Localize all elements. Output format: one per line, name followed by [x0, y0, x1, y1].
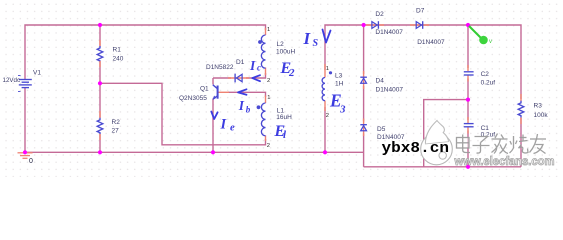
svg-text:D1N4007: D1N4007 — [417, 39, 445, 46]
wire D4 D5 vertical branch — [363, 25, 365, 74]
svg-text:b: b — [246, 105, 251, 115]
annotation E2 — [280, 60, 296, 79]
svg-text:2: 2 — [326, 113, 329, 119]
polarity dot L1 — [257, 105, 261, 109]
junction C2 branch at top rail — [466, 23, 470, 27]
resistor R3 — [518, 101, 524, 118]
wire between D4 and D5 — [363, 86, 365, 122]
resistor R1 — [97, 46, 103, 61]
annotation Ib with arrow — [238, 89, 251, 114]
svg-text:2: 2 — [267, 78, 270, 84]
pin stub R2 top — [99, 111, 101, 118]
svg-text:1H: 1H — [335, 81, 344, 88]
svg-text:R3: R3 — [534, 103, 543, 110]
diode D5 — [360, 125, 367, 131]
pin stub L1 top — [265, 96, 267, 104]
svg-text:100uH: 100uH — [276, 49, 295, 56]
inductor L2 — [261, 35, 265, 68]
svg-text:1: 1 — [267, 27, 270, 33]
svg-text:c: c — [257, 63, 261, 73]
junction V1 minus at ground bus — [23, 150, 27, 154]
pin stub R2 bottom — [99, 134, 101, 141]
inductor L3 — [322, 78, 325, 101]
diode D7 — [416, 21, 423, 29]
junction L3 bottom at ground bus — [323, 150, 327, 154]
annotation Ic with arrow — [249, 58, 261, 81]
junction D4 branch at top rail — [362, 23, 366, 27]
wire L3 bottom to bus — [324, 107, 326, 152]
svg-text:Q2N3055: Q2N3055 — [179, 95, 207, 102]
svg-text:100k: 100k — [534, 112, 549, 119]
capacitor C1 — [464, 124, 474, 127]
svg-text:D1N4007: D1N4007 — [376, 87, 404, 94]
pin stub L3 bottom — [324, 101, 326, 112]
wire Q1 emitter to bus — [212, 99, 214, 153]
wire top-left rail V1+ to L2 pin1 — [25, 25, 266, 80]
diode D2 — [372, 21, 379, 29]
wire R2 bottom to bus — [99, 134, 101, 152]
transistor Q1 — [213, 85, 218, 100]
svg-text:240: 240 — [113, 56, 124, 63]
pin stub D2 through — [366, 24, 384, 26]
wire Q1 collector to D1 row — [212, 78, 214, 85]
wire battery bottom to ground bus — [24, 88, 26, 153]
watermark chinese 电子发烧友 drawn strokes — [457, 134, 547, 154]
svg-text:S: S — [313, 38, 319, 49]
svg-text:0.2uf: 0.2uf — [481, 80, 496, 87]
pin stub Q1 base — [219, 91, 230, 93]
pin stub L3 top — [324, 64, 326, 78]
annotation E1 — [274, 123, 288, 141]
svg-text:I: I — [249, 58, 256, 73]
wire D1 row left segment — [213, 77, 231, 79]
pin stub C1 bottom — [467, 128, 469, 134]
pin stub D7 through — [410, 24, 429, 26]
wire mid tap node to left and down — [424, 100, 468, 167]
svg-text:D2: D2 — [375, 11, 384, 18]
svg-text:V1: V1 — [33, 70, 41, 77]
pin stub R1 top — [99, 40, 101, 47]
diode D1 — [235, 74, 242, 83]
svg-text:C2: C2 — [481, 71, 490, 78]
wire bottom-right bus — [364, 166, 521, 168]
junction C2-C1 mid node tap — [466, 98, 470, 102]
grid dots — [0, 0, 563, 177]
svg-text:R2: R2 — [112, 119, 121, 126]
junction C1 bottom at lower bus — [466, 165, 470, 169]
pin stub L2 bottom — [265, 68, 267, 76]
svg-text:D1N4007: D1N4007 — [375, 29, 403, 36]
svg-text:27: 27 — [112, 128, 120, 135]
annotation E3 — [329, 91, 346, 116]
ground symbol 0 — [18, 153, 33, 159]
pin stub L1 bottom — [265, 136, 267, 142]
svg-text:ybx8.cn: ybx8.cn — [382, 141, 450, 157]
pin stub L2 top — [265, 28, 267, 35]
svg-text:L2: L2 — [277, 41, 285, 48]
svg-text:D7: D7 — [416, 8, 425, 15]
svg-text:www.elecfans.com: www.elecfans.com — [454, 154, 555, 168]
char shao — [510, 135, 529, 154]
polarity dot L2 — [258, 40, 262, 44]
wire Q1 base to L1 pin1 — [228, 92, 266, 97]
capacitor C2 — [464, 72, 474, 75]
wire R1 top stub connection — [99, 25, 101, 46]
pin stub C1 top — [467, 117, 469, 123]
svg-text:L3: L3 — [335, 73, 343, 80]
wire C2 branch top — [467, 25, 469, 68]
svg-text:1: 1 — [326, 66, 329, 72]
pin stub R1 bottom — [99, 61, 101, 68]
pin stub R3 top — [520, 94, 522, 101]
junction R2 bottom at ground bus — [98, 150, 102, 154]
wire C1 to bottom bus — [467, 131, 469, 167]
char you — [530, 134, 547, 154]
handwritten annotations — [211, 29, 346, 141]
svg-text:0.2uf: 0.2uf — [481, 132, 496, 139]
svg-text:R1: R1 — [113, 47, 122, 54]
junction Q1 emitter at ground bus — [211, 150, 215, 154]
wire feedback path R1R2 node to L1 pin2 — [100, 83, 266, 145]
pin numbers — [267, 27, 329, 149]
pin stub D5 through — [363, 119, 365, 137]
wire C2 to mid node — [467, 79, 469, 121]
svg-text:2: 2 — [288, 67, 295, 79]
char zi — [473, 137, 490, 154]
polarity dot L3 — [329, 71, 332, 74]
pin stub R3 bottom — [520, 118, 522, 125]
junction R1 top at V+ rail — [98, 23, 102, 27]
svg-text:12Vdc: 12Vdc — [3, 77, 21, 84]
wire R1 bottom to R2 top — [99, 61, 101, 118]
wire top rail B from L3 corner to right corner — [325, 25, 521, 99]
svg-text:Q1: Q1 — [200, 86, 209, 93]
svg-text:v: v — [489, 39, 492, 45]
char fa — [492, 134, 509, 154]
svg-text:D1N5822: D1N5822 — [206, 64, 234, 71]
svg-text:D4: D4 — [376, 78, 385, 85]
wire D5 to bottom jog — [363, 134, 365, 167]
pin stub C2 top — [467, 65, 469, 71]
svg-text:D1N4007: D1N4007 — [377, 134, 405, 141]
svg-text:I: I — [238, 98, 245, 113]
svg-text:0: 0 — [29, 158, 33, 165]
battery V1 — [18, 76, 32, 92]
pin stub D4 through — [363, 71, 365, 89]
svg-text:2: 2 — [267, 143, 270, 149]
wire D1 row right segment to L2 pin2 — [246, 73, 266, 78]
resistor R2 — [97, 118, 103, 134]
svg-text:D1: D1 — [236, 59, 245, 66]
annotation Ie with arrow — [211, 112, 235, 134]
inductor L1 — [261, 103, 265, 136]
svg-text:e: e — [230, 123, 235, 134]
svg-text:1: 1 — [267, 95, 270, 101]
wire bottom-left ground bus — [25, 151, 364, 153]
green probe — [469, 26, 492, 45]
pin stub D1 through — [228, 77, 249, 79]
junction R1-R2 divider node — [98, 81, 102, 85]
watermark — [382, 121, 555, 168]
wire R3 bottom to bus — [520, 118, 522, 167]
logo elecfans white drop — [421, 121, 453, 165]
diode D4 — [360, 77, 367, 83]
svg-text:16uH: 16uH — [276, 114, 292, 121]
char dian — [457, 135, 471, 153]
svg-text:3: 3 — [339, 104, 346, 116]
annotation Is — [303, 29, 331, 49]
pin stub C2 bottom — [467, 76, 469, 82]
svg-text:D5: D5 — [377, 126, 386, 133]
